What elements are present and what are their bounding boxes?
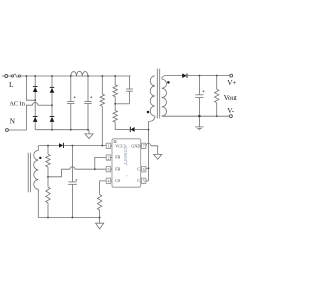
svg-text:AC In: AC In: [9, 101, 25, 108]
wire vcc: [64, 145, 106, 147]
U1 pin 5 box: [141, 178, 146, 183]
ground secondary earth: [195, 116, 203, 130]
diode D5 clamp: [130, 127, 134, 132]
U1 pin 4 box: [106, 178, 111, 183]
wire N branch: [9, 105, 33, 130]
svg-text:3: 3: [107, 167, 109, 172]
resistor R3 snubber: [113, 104, 117, 130]
ground primary DC: [85, 130, 93, 139]
svg-text:C: C: [137, 178, 140, 183]
resistor R7 CS: [97, 181, 106, 218]
wire N hop: [33, 103, 38, 106]
U1 pin 3 box: [106, 167, 111, 172]
terminal V+: [230, 74, 233, 77]
resistor R5 divider upper: [46, 146, 50, 177]
ground CS: [96, 218, 104, 229]
wire bridge left column: [34, 76, 36, 130]
wire output plus: [187, 75, 229, 77]
wire clamp to drain: [135, 129, 149, 131]
resistor R6 divider lower: [46, 177, 50, 218]
transformer aux core: [27, 153, 29, 193]
inductor L1: [71, 71, 88, 76]
capacitor C5 vcc: [68, 146, 77, 218]
diode D4: [50, 117, 55, 122]
wire L branch: [26, 76, 35, 100]
svg-text:L: L: [9, 80, 14, 89]
diode D7 vcc: [59, 143, 64, 148]
svg-text:1: 1: [107, 144, 109, 149]
transformer aux winding: [34, 146, 39, 218]
wire top rail: [21, 75, 131, 77]
U1 pin 6 box: [141, 167, 146, 172]
wire drain vertical: [148, 121, 150, 180]
capacitor C4 output: [195, 76, 204, 117]
svg-text:CS: CS: [115, 178, 121, 183]
wire pin6: [146, 167, 149, 169]
U1 pin 7 box: [141, 143, 146, 148]
wire snubber node: [115, 103, 129, 105]
resistor R1 startup: [100, 76, 104, 146]
wire pin2 link: [95, 157, 106, 169]
wire FB hop: [70, 167, 75, 170]
transformer primary: [149, 76, 156, 122]
U1 pin stubs: [111, 146, 142, 181]
ground signal pin7: [154, 154, 162, 159]
node junction dots: [25, 75, 217, 219]
node secondary dot: [167, 81, 170, 84]
svg-text:V+: V+: [227, 78, 236, 87]
wire FB to pin3: [75, 168, 106, 170]
wire clamp: [115, 129, 130, 131]
svg-text:FB: FB: [115, 166, 120, 171]
terminal V-: [229, 115, 232, 118]
terminal N: [6, 129, 9, 132]
svg-text:GND: GND: [131, 144, 140, 149]
wire N to right column: [38, 104, 52, 106]
diode D1: [33, 87, 38, 92]
svg-text:FB: FB: [115, 154, 120, 159]
wire aux ground rail: [38, 217, 99, 219]
node output gnd junction: [198, 115, 200, 117]
wire pin5: [146, 180, 149, 182]
svg-text:5: 5: [143, 179, 145, 184]
transformer core: [156, 69, 158, 119]
fuse F1: [8, 74, 21, 77]
transformer secondary: [162, 75, 167, 116]
svg-text:Vout: Vout: [224, 93, 238, 102]
diode D3: [33, 117, 38, 122]
op-amp U1 body: [112, 139, 141, 187]
svg-text:C: C: [137, 166, 140, 171]
svg-text:V-: V-: [227, 106, 235, 115]
terminal L: [5, 75, 8, 78]
capacitor C3 snubber: [126, 76, 133, 104]
svg-text:2: 2: [107, 155, 109, 160]
wire aux top: [38, 145, 59, 147]
wire output minus rail: [162, 115, 229, 117]
U1 faint marks: [126, 161, 128, 176]
capacitor C1: [67, 76, 76, 130]
wire DC minus rail: [35, 129, 89, 131]
wire bridge right column: [51, 76, 53, 130]
resistor R4 load: [215, 76, 219, 117]
svg-text:VCC: VCC: [115, 144, 124, 149]
diode D6 output: [182, 73, 187, 78]
U1 pin 1 box: [106, 143, 111, 148]
diode D2: [50, 87, 55, 92]
resistor R2 snubber: [113, 76, 117, 104]
wire FB tap: [48, 169, 70, 177]
svg-text:N: N: [10, 116, 16, 125]
capacitor C2: [84, 76, 92, 130]
wire pin7 gnd: [145, 145, 147, 147]
node aux dot: [39, 157, 41, 159]
wire secondary top: [166, 75, 182, 77]
U1 pin 2 box: [106, 155, 111, 160]
U1 pin1 indicator: [114, 141, 116, 143]
node primary dot: [147, 111, 150, 114]
